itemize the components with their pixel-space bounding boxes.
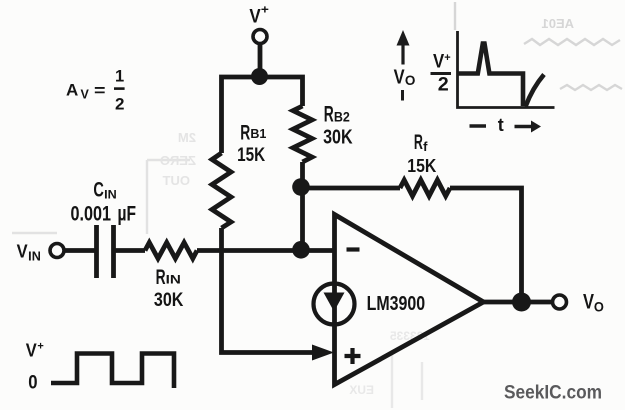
svg-text:B1: B1 xyxy=(250,126,266,141)
svg-text:1: 1 xyxy=(115,67,124,85)
svg-text:V: V xyxy=(394,66,405,89)
svg-text:+: + xyxy=(37,341,43,353)
svg-text:EUX: EUX xyxy=(349,383,374,397)
svg-text:OUT: OUT xyxy=(163,173,191,188)
svg-text:R: R xyxy=(156,266,166,289)
svg-text:O: O xyxy=(405,72,416,88)
svg-text:IN: IN xyxy=(166,275,181,287)
svg-text:0: 0 xyxy=(28,372,37,394)
svg-text:30K: 30K xyxy=(323,127,353,149)
svg-text:15K: 15K xyxy=(407,155,437,176)
svg-text:SeekIC.com: SeekIC.com xyxy=(504,382,602,404)
svg-text:+: + xyxy=(261,5,269,17)
svg-text:C: C xyxy=(93,179,104,202)
svg-text:IN: IN xyxy=(28,250,41,264)
svg-text:f: f xyxy=(423,139,428,154)
svg-text:15K: 15K xyxy=(237,144,265,166)
svg-text:R: R xyxy=(240,121,250,145)
svg-text:ZERO: ZERO xyxy=(160,153,196,168)
svg-text:2: 2 xyxy=(115,94,124,113)
svg-text:µF: µF xyxy=(118,203,137,226)
svg-text:R: R xyxy=(414,130,423,154)
svg-text:V: V xyxy=(249,6,260,28)
svg-text:B2: B2 xyxy=(334,109,350,124)
svg-text:V: V xyxy=(433,51,444,72)
svg-text:V: V xyxy=(583,291,594,314)
svg-text:+: + xyxy=(444,52,450,64)
svg-text:2M: 2M xyxy=(178,130,196,145)
svg-text:V: V xyxy=(17,240,29,261)
svg-text:t: t xyxy=(498,115,504,135)
svg-text:R: R xyxy=(324,101,334,126)
svg-text:30K: 30K xyxy=(154,289,184,311)
svg-text:A: A xyxy=(66,80,78,99)
svg-text:=: = xyxy=(94,81,106,100)
svg-text:V: V xyxy=(26,340,38,361)
svg-text:V: V xyxy=(81,88,90,102)
svg-text:0.001: 0.001 xyxy=(71,203,112,226)
svg-text:IN: IN xyxy=(104,189,117,201)
svg-text:2: 2 xyxy=(438,75,449,96)
svg-text:LM3900: LM3900 xyxy=(367,292,426,315)
svg-text:O: O xyxy=(594,300,604,315)
svg-text:AE01: AE01 xyxy=(541,16,574,31)
